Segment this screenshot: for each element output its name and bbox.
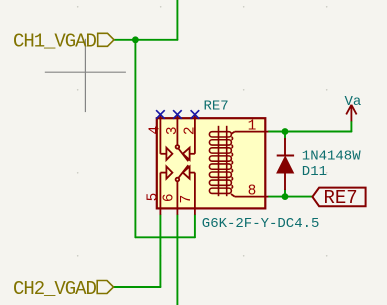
switch 2 contact left triangle [166, 167, 172, 179]
switch 2 moving contact [178, 165, 188, 178]
pin 7 [194, 173, 196, 215]
no-connect X pin3 [173, 110, 182, 119]
no-connect X pin2 [191, 110, 200, 119]
diode D11 [277, 138, 294, 190]
grid dots [77, 6, 328, 257]
svg-text:8: 8 [248, 184, 257, 200]
svg-text:1N4148W: 1N4148W [302, 149, 361, 165]
wire pin6 drop [176, 215, 178, 305]
svg-text:3: 3 [165, 126, 181, 135]
global label RE7 [312, 187, 365, 209]
hierarchical label CH2_VGAD [13, 278, 114, 300]
svg-text:RE7: RE7 [324, 187, 358, 209]
relay U=RE7 body [157, 118, 265, 208]
relay coil [209, 126, 232, 196]
hierarchical label CH1_VGAD [13, 31, 114, 53]
wire bottom horizontal [135, 236, 195, 238]
wire diode bottom [284, 190, 286, 197]
switch 2 contact right triangle [183, 167, 190, 179]
power symbol Va [346, 105, 356, 122]
svg-text:7: 7 [179, 195, 195, 204]
crosshair graphic [45, 39, 126, 112]
svg-text:RE7: RE7 [204, 99, 229, 115]
wire Va riser [350, 121, 352, 131]
wire pin7 riser [194, 215, 196, 238]
svg-text:2: 2 [183, 126, 199, 135]
pin 8 lead [235, 196, 269, 198]
pin 2 [194, 115, 196, 154]
svg-text:CH2_VGAD: CH2_VGAD [13, 278, 96, 300]
wire CH1 horizontal [114, 39, 177, 41]
pin 3 [176, 115, 178, 146]
svg-text:4: 4 [148, 126, 164, 135]
svg-text:5: 5 [146, 193, 162, 202]
wire pin1 to Va [268, 131, 351, 133]
switch 1 moving contact [178, 149, 188, 162]
wire top vertical [176, 0, 178, 40]
switch 1 contact right triangle [183, 148, 190, 160]
wire CH2 horizontal [114, 286, 161, 288]
relay pin numbers [146, 119, 257, 204]
svg-text:1: 1 [248, 119, 257, 135]
switch 1 contact left triangle [166, 148, 172, 160]
wire diode top [284, 132, 286, 140]
junction C [282, 193, 289, 200]
wire pin5 drop [159, 215, 161, 287]
pin 6 [176, 181, 178, 214]
switch 2 pivot circle [176, 178, 180, 182]
wire left vertical to bottom [134, 40, 136, 238]
pin 5 [159, 173, 161, 215]
svg-text:CH1_VGAD: CH1_VGAD [13, 31, 96, 53]
svg-text:Va: Va [345, 94, 362, 110]
pin 1 lead [235, 131, 269, 133]
svg-text:6: 6 [162, 193, 178, 202]
svg-text:G6K-2F-Y-DC4.5: G6K-2F-Y-DC4.5 [202, 216, 320, 232]
switch 1 pivot circle [176, 145, 180, 149]
junction B [282, 128, 289, 135]
junction A [132, 36, 139, 43]
svg-text:D11: D11 [302, 164, 327, 180]
no-connect X pin4 [156, 110, 165, 119]
relay RE7 pin 4 [159, 115, 161, 154]
wire pin8 to label [268, 196, 312, 198]
